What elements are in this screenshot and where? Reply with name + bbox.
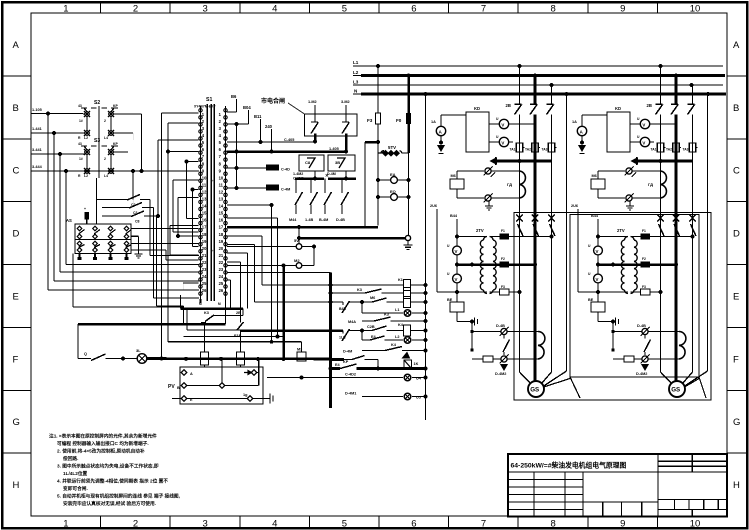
svg-text:22: 22: [219, 260, 224, 265]
svg-text:S2: S2: [94, 100, 100, 106]
rung y302: [255, 301, 344, 303]
svg-text:AS: AS: [66, 218, 72, 223]
terminal strip S1 right bead rail: [225, 106, 227, 299]
below-strip vertical x187: [186, 309, 188, 331]
generator1 phase B mid: [534, 115, 537, 373]
svg-text:L2: L2: [84, 136, 88, 140]
weave vertical x153.5: [153, 208, 155, 299]
svg-text:15: 15: [202, 211, 207, 216]
ladder right rail: [425, 94, 427, 420]
generator2 phase C drop: [692, 85, 694, 104]
svg-text:F3: F3: [642, 285, 646, 289]
svg-text:V: V: [596, 249, 599, 254]
grid row labels left: [2, 75, 31, 77]
svg-text:5. 自动并机柜与现有机组控制屏间的连线 参见 端子 接线图: 5. 自动并机柜与现有机组控制屏间的连线 参见 端子 接线图,: [57, 493, 180, 500]
svg-text:3: 3: [203, 4, 208, 15]
svg-text:M44: M44: [289, 218, 297, 222]
wire exit y272.5 to ladder rail: [227, 272, 330, 274]
title block left grid rows: [508, 479, 583, 481]
generator1 fused switch row: [516, 215, 523, 222]
wire STV right leg down: [408, 153, 410, 236]
generator2 excitation contact: [644, 335, 646, 339]
svg-text:M6: M6: [370, 296, 375, 300]
wire x365 vertical: [364, 142, 366, 227]
svg-text:13: 13: [202, 197, 207, 202]
wire exit into 5V: [227, 246, 296, 248]
title block right cells: [657, 472, 659, 517]
svg-text:19: 19: [219, 239, 224, 244]
svg-text:G: G: [13, 417, 20, 428]
generator2 fused switch row: [657, 215, 664, 222]
generator1 BE output wire: [456, 312, 458, 322]
exit y218 to x277.5: [227, 217, 277, 219]
svg-text:1-M2: 1-M2: [308, 100, 317, 104]
strip lower-left entries: [183, 282, 199, 284]
wire y359.5 heavy mid: [147, 357, 331, 360]
svg-text:C8: C8: [135, 220, 140, 224]
svg-text:25: 25: [202, 281, 207, 286]
contact C3: [102, 207, 129, 209]
svg-text:3-M2: 3-M2: [341, 100, 350, 104]
fuse F2 exit with label C-4D: [235, 166, 239, 170]
wire S2S3 centre to AS: [96, 178, 98, 224]
svg-text:13: 13: [219, 197, 224, 202]
fuse F1 exit with label C-4M: [235, 186, 239, 190]
svg-text:✕: ✕: [325, 173, 329, 178]
svg-text:64-250kW/=#柴油发电机组电气原理图: 64-250kW/=#柴油发电机组电气原理图: [511, 461, 627, 470]
component 1K flag: [404, 360, 412, 369]
generator2 excitation ground arrow: [642, 365, 648, 371]
svg-text:23: 23: [219, 267, 224, 272]
svg-text:22: 22: [202, 260, 207, 265]
heavy bar relay outputs right: [328, 177, 356, 180]
svg-text:19: 19: [202, 239, 207, 244]
svg-text:E: E: [13, 291, 19, 302]
below-strip vertical x183.5: [183, 309, 185, 325]
svg-text:5TV: 5TV: [388, 145, 396, 150]
svg-text:16: 16: [219, 218, 224, 223]
generator1 GS fan lines: [520, 372, 531, 384]
weave vertical x192.5: [192, 190, 194, 247]
svg-text:L1: L1: [395, 308, 399, 312]
svg-text:V: V: [455, 277, 458, 282]
svg-text:K1: K1: [398, 278, 403, 282]
generator2 field bumps near GS: [679, 332, 686, 360]
svg-text:4: 4: [272, 519, 277, 530]
generator1 phase C mid: [551, 115, 553, 373]
svg-text:3: 3: [203, 519, 208, 530]
svg-text:KP: KP: [113, 104, 118, 108]
svg-text:3-444: 3-444: [32, 165, 43, 169]
svg-text:D-4M2: D-4M2: [636, 372, 647, 376]
grid column labels top: [100, 2, 102, 13]
wire heavy y238 to ground circle: [299, 237, 405, 240]
contact C8b: [102, 215, 131, 217]
generator1 slash circle lower: [485, 195, 491, 201]
PV terminal A: [181, 370, 187, 376]
ground right of AS: [131, 235, 139, 237]
exit y280 to x230.5: [227, 279, 230, 281]
svg-text:21: 21: [219, 253, 224, 258]
svg-text:1L/4L2位置: 1L/4L2位置: [63, 470, 88, 477]
wire STV left leg down: [377, 153, 379, 226]
svg-text:M: M: [218, 302, 221, 306]
generator2 slash circle lower: [626, 195, 632, 201]
svg-text:1#: 1#: [79, 157, 83, 161]
svg-text:1: 1: [63, 4, 68, 15]
svg-text:2. 使用前,将-4×5改为控制柜,原动机自动补: 2. 使用前,将-4×5改为控制柜,原动机自动补: [57, 448, 145, 455]
svg-text:2U6: 2U6: [571, 204, 578, 208]
svg-text:L1: L1: [353, 60, 359, 65]
svg-text:KP: KP: [113, 142, 118, 146]
svg-text:10: 10: [219, 175, 224, 180]
svg-text:B6: B6: [231, 94, 237, 99]
svg-text:XY4B7M-EXP: XY4B7M-EXP: [194, 105, 216, 109]
svg-text:Q: Q: [84, 352, 87, 356]
fuse FU2 above PV: [237, 352, 245, 365]
heavy bar relay outputs left: [295, 177, 324, 180]
generator2 tap y292 fuse F3: [578, 291, 628, 293]
PV terminal right top arrow: [251, 370, 257, 376]
bus junction dots: [376, 64, 380, 68]
generator2 generator GS: [669, 381, 685, 397]
weave vertical x168 long: [167, 123, 169, 342]
svg-text:7: 7: [481, 4, 486, 15]
svg-text:安装完毕应认真核对无误,经试 验后方可使用.: 安装完毕应认真核对无误,经试 验后方可使用.: [63, 500, 156, 507]
ladder left rail: [329, 273, 332, 409]
exit y227 heavy to STV leg: [227, 226, 378, 229]
generator2 loop upper wire: [597, 171, 599, 179]
PV mid diamond: [219, 383, 225, 389]
svg-text:M4A: M4A: [348, 320, 356, 324]
generator1 relay BE box: [450, 302, 464, 312]
svg-text:E1B: E1B: [234, 334, 242, 338]
svg-text:EA: EA: [390, 172, 396, 177]
svg-text:26: 26: [202, 288, 207, 293]
relay 3B box: [328, 155, 355, 171]
generator2 phase A mid: [660, 115, 662, 373]
rung K1 y285: [262, 284, 404, 286]
generator1 loop lower wire: [456, 189, 458, 198]
box around mains contacts: [305, 114, 358, 136]
generator1 phase A drop: [519, 66, 521, 104]
generator2 phase A drop: [660, 66, 662, 104]
svg-text:1#: 1#: [79, 119, 83, 123]
svg-text:B: B: [177, 386, 180, 390]
generator1 tap y264.5 fuse F2: [457, 263, 500, 266]
generator1 slash circle upper: [485, 168, 491, 174]
exit y262 to x240.5: [227, 261, 240, 263]
svg-text:1A: 1A: [572, 120, 577, 124]
PV riser mid x222: [221, 359, 223, 383]
wire F-row left vertical: [65, 171, 67, 265]
wire AS bottom-left link: [72, 254, 74, 308]
relay C8 box: [299, 155, 324, 171]
strip left entries misc: [178, 197, 199, 199]
wire y336.5 horizontal: [184, 336, 284, 338]
svg-text:17: 17: [202, 225, 207, 230]
strip bottom stubs: [200, 299, 202, 303]
PV internal wires: [187, 385, 219, 387]
svg-text:D: D: [13, 229, 20, 240]
svg-text:B4B: B4B: [339, 307, 346, 311]
svg-text:20: 20: [202, 246, 207, 251]
fuse F3: [377, 66, 379, 113]
svg-text:10: 10: [202, 175, 207, 180]
weave vertical x161.5 long: [161, 113, 163, 360]
wire heavy y142 corner: [365, 141, 378, 144]
wire exit into M2: [227, 265, 296, 267]
svg-text:TA2: TA2: [525, 148, 531, 152]
wire y341.8 horizontal: [168, 341, 302, 343]
svg-text:V: V: [596, 277, 599, 282]
svg-text:D-4M2: D-4M2: [495, 372, 506, 376]
svg-text:C-4D: C-4D: [281, 168, 290, 172]
generator2 heavy bar y161 with arrow: [632, 158, 638, 164]
svg-text:2: 2: [133, 519, 138, 530]
generator2 relay M6 box: [591, 179, 605, 189]
svg-text:11: 11: [202, 182, 207, 187]
exit y244.5 to x254.5: [227, 244, 254, 246]
svg-text:BE: BE: [588, 298, 594, 302]
generator2 ground below slash: [629, 201, 631, 203]
svg-text:26: 26: [219, 288, 224, 293]
svg-text:V: V: [501, 141, 504, 146]
svg-text:2TV: 2TV: [617, 228, 625, 233]
wire heavy vertical x283.5: [282, 266, 285, 360]
exit y205 to x271.5: [227, 204, 271, 206]
svg-text:M6: M6: [451, 174, 456, 178]
svg-text:K3: K3: [384, 313, 389, 317]
PV terminal B: [181, 383, 187, 389]
svg-text:L2: L2: [84, 174, 88, 178]
svg-text:V: V: [455, 249, 458, 254]
below-strip heavy bus y308.5: [181, 307, 244, 310]
svg-text:KD: KD: [615, 106, 621, 111]
rung lamp L1 y313: [361, 302, 363, 313]
svg-text:14: 14: [219, 204, 224, 209]
svg-text:14: 14: [202, 204, 207, 209]
generator2 slash circle upper: [626, 168, 632, 174]
svg-text:3-441: 3-441: [32, 148, 42, 152]
svg-text:3L: 3L: [136, 348, 141, 353]
svg-text:C8: C8: [305, 160, 311, 165]
component M3 box: [297, 352, 306, 361]
AS outputs to strip: [131, 228, 199, 230]
wire vertical x60: [59, 154, 61, 272]
svg-text:2B: 2B: [647, 103, 652, 108]
generator2 BE output wire: [597, 312, 599, 322]
svg-text:V: V: [501, 123, 504, 128]
svg-text:7: 7: [481, 519, 486, 530]
terminal strip S1 left bead column: [199, 109, 207, 296]
generator2 phase B drop: [675, 76, 678, 105]
svg-text:15: 15: [219, 211, 224, 216]
svg-text:2: 2: [104, 119, 106, 123]
weave vertical x173: [172, 180, 174, 232]
svg-text:6: 6: [411, 519, 416, 530]
rung lamp U4 y377.5: [267, 377, 302, 379]
svg-text:3B: 3B: [335, 160, 340, 165]
svg-text:2U6: 2U6: [430, 204, 437, 208]
PV terminal E: [181, 396, 187, 402]
svg-text:G: G: [733, 417, 740, 428]
svg-text:D-4B: D-4B: [496, 324, 505, 328]
svg-text:17: 17: [219, 225, 224, 230]
svg-text:F3: F3: [501, 285, 505, 289]
svg-text:3. 图中所示触点状态均为失电,设备不工作状态,即: 3. 图中所示触点状态均为失电,设备不工作状态,即: [57, 463, 159, 470]
wire exit y142 to C-405: [227, 141, 315, 143]
svg-text:TA1: TA1: [651, 148, 657, 152]
svg-text:8: 8: [551, 519, 556, 530]
generator1 phase A mid: [519, 115, 521, 373]
svg-text:2TV: 2TV: [476, 228, 484, 233]
wire x78 drop to switch: [77, 324, 79, 359]
generator1 field bumps near GS: [538, 332, 545, 360]
svg-text:C2B: C2B: [367, 325, 375, 329]
svg-text:1-4B: 1-4B: [305, 218, 313, 222]
svg-text:BE: BE: [447, 298, 453, 302]
svg-text:D-4M1: D-4M1: [345, 392, 356, 396]
svg-text:10: 10: [690, 519, 701, 530]
svg-text:8: 8: [551, 4, 556, 15]
generator1 loop upper wire: [456, 171, 458, 179]
meter EO: [376, 195, 380, 199]
wire vertical x271.5 down: [271, 205, 273, 342]
svg-text:1-441: 1-441: [32, 127, 42, 131]
svg-text:C-4M: C-4M: [281, 188, 290, 192]
svg-text:EO: EO: [390, 189, 396, 194]
weave entry y170.5: [141, 170, 143, 172]
wire exit y151.5 heavy to 1-405: [227, 150, 346, 153]
enclosure rect inner: [570, 215, 699, 378]
svg-text:KD: KD: [474, 106, 480, 111]
weave vertical x156.5: [156, 216, 158, 306]
svg-text:2B: 2B: [506, 103, 511, 108]
svg-text:9: 9: [620, 4, 625, 15]
svg-text:C-4D2: C-4D2: [345, 373, 356, 377]
svg-text:M: M: [199, 302, 202, 306]
svg-text:C: C: [13, 166, 20, 177]
svg-text:B: B: [733, 103, 739, 114]
svg-text:M6: M6: [592, 174, 597, 178]
svg-text:24: 24: [219, 274, 224, 279]
rung heavy y330.5: [241, 329, 344, 332]
generator1 excitation ground arrow: [501, 365, 507, 371]
grid row labels right: [727, 75, 747, 77]
generator1 phase C drop: [551, 85, 553, 104]
wire vertical x48: [47, 114, 49, 291]
svg-text:S1: S1: [206, 97, 212, 103]
svg-text:1K: 1K: [414, 362, 419, 366]
svg-text:2: 2: [104, 157, 106, 161]
svg-text:F2: F2: [642, 257, 646, 261]
svg-text:1g: 1g: [243, 393, 248, 397]
generator2 phase C mid: [692, 115, 694, 373]
exit y236 to x262: [227, 235, 262, 237]
svg-text:43: 43: [78, 142, 82, 146]
svg-text:25: 25: [219, 281, 224, 286]
weave vertical x186.5: [186, 162, 188, 219]
weave vertical x150: [149, 200, 151, 256]
fuse FU1 above PV: [201, 352, 209, 365]
generator1 tap y292 fuse F3: [437, 291, 487, 293]
svg-text:ГД: ГД: [507, 182, 512, 187]
svg-text:TA1: TA1: [510, 148, 516, 152]
svg-text:D-4M: D-4M: [343, 350, 352, 354]
svg-text:注1. ×表示本图在原控制屏内的元件,其余为新增元件: 注1. ×表示本图在原控制屏内的元件,其余为新增元件: [49, 433, 157, 440]
generator2 phase B mid: [675, 115, 678, 373]
contact 1C2 left: [311, 121, 318, 123]
generator2 tap y264.5 fuse F2: [598, 263, 641, 266]
generator2 relay BE box: [591, 302, 605, 312]
grid column labels bottom: [100, 516, 102, 528]
svg-text:F: F: [13, 354, 19, 365]
svg-text:16: 16: [202, 218, 207, 223]
generator1 control box KD: [466, 112, 489, 152]
svg-text:A: A: [190, 372, 193, 376]
generator2 neutral drop: [707, 94, 709, 371]
svg-text:L2: L2: [395, 335, 399, 339]
junction dots left verticals: [46, 111, 50, 115]
svg-text:GS: GS: [530, 387, 539, 394]
entry y204.5 from x133: [132, 200, 134, 205]
generator2 control box KD: [607, 112, 630, 152]
generator2 slash circle excitation: [642, 356, 648, 362]
contact C2: [97, 199, 127, 201]
svg-text:20: 20: [219, 246, 224, 251]
wire vertical x133 from 3-444: [132, 171, 134, 200]
generator1 tap y236.5 fuse F1: [457, 236, 487, 238]
generator1 neutral drop: [566, 94, 568, 371]
svg-text:L4: L4: [104, 174, 108, 178]
bundle horizontals into strip: [66, 264, 199, 266]
svg-text:1: 1: [63, 519, 68, 530]
svg-text:E: E: [733, 291, 739, 302]
svg-text:PV: PV: [168, 384, 175, 390]
weave vertical x158: [157, 140, 159, 216]
svg-text:B-4M: B-4M: [319, 218, 328, 222]
svg-text:B: B: [13, 103, 19, 114]
svg-text:5: 5: [342, 519, 347, 530]
GS1 cable to cubicle: [544, 379, 571, 388]
wire heavy y324: [78, 323, 226, 326]
svg-text:21: 21: [202, 253, 207, 258]
svg-text:2: 2: [133, 4, 138, 15]
svg-text:A: A: [13, 40, 20, 51]
svg-text:变即可合闸.: 变即可合闸.: [63, 485, 88, 492]
PV external ground right: [253, 398, 270, 400]
generator2 tap y236.5 fuse F1: [598, 236, 628, 238]
svg-text:12: 12: [219, 189, 224, 194]
svg-text:GS: GS: [671, 387, 680, 394]
generator1 slash circle excitation: [501, 356, 507, 362]
rung K3 y293: [329, 291, 333, 295]
series link 5V-M2 right: [302, 246, 314, 248]
svg-text:S3: S3: [94, 138, 100, 144]
svg-text:D-4B: D-4B: [336, 218, 345, 222]
svg-text:6: 6: [411, 4, 416, 15]
title block top band: [508, 471, 727, 473]
svg-text:C: C: [733, 166, 740, 177]
svg-text:F1: F1: [642, 229, 646, 233]
title block middle bottom cells: [583, 501, 658, 503]
svg-text:TA3: TA3: [542, 148, 548, 152]
generator1 ground below slash: [488, 201, 490, 203]
svg-text:18: 18: [219, 232, 224, 237]
wires S2 S3 right outputs: [113, 113, 142, 115]
svg-text:1-4M2: 1-4M2: [293, 172, 303, 176]
